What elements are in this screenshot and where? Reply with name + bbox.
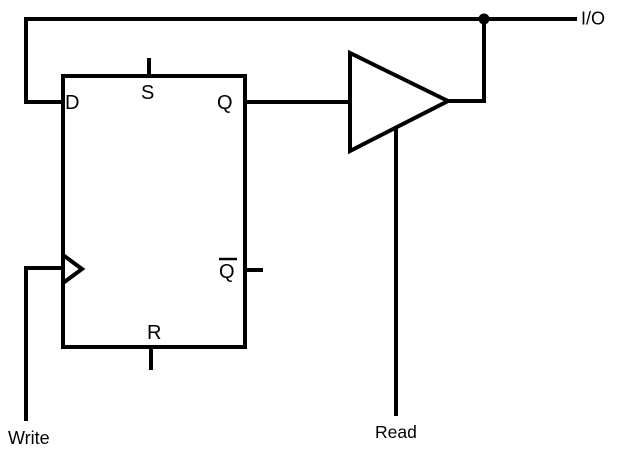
tri-state buffer U2 — [350, 53, 448, 151]
svg-text:Read: Read — [375, 422, 417, 442]
svg-text:S: S — [141, 82, 154, 104]
S input stub — [147, 58, 151, 78]
R input stub — [149, 345, 153, 370]
svg-text:D: D — [65, 92, 79, 114]
wire: feedback net from D pin along left rail and top rail to I/O — [26, 19, 577, 102]
wire: buffer output up to top rail junction — [448, 19, 484, 101]
wire: Write line to clock pin — [26, 268, 63, 421]
svg-text:Q: Q — [217, 92, 233, 114]
svg-text:Q: Q — [219, 261, 235, 283]
D flip-flop U1 body — [63, 76, 245, 347]
svg-text:R: R — [147, 322, 161, 344]
svg-text:I/O: I/O — [581, 9, 605, 29]
svg-text:Write: Write — [8, 428, 50, 448]
clock input chevron — [63, 255, 82, 283]
wire: Q-bar output stub — [245, 268, 263, 272]
junction dot at top rail — [479, 14, 490, 25]
wire: Read line to buffer enable — [394, 128, 398, 416]
pin label Q-bar — [219, 259, 237, 283]
wire: Q output to buffer input — [245, 100, 350, 104]
